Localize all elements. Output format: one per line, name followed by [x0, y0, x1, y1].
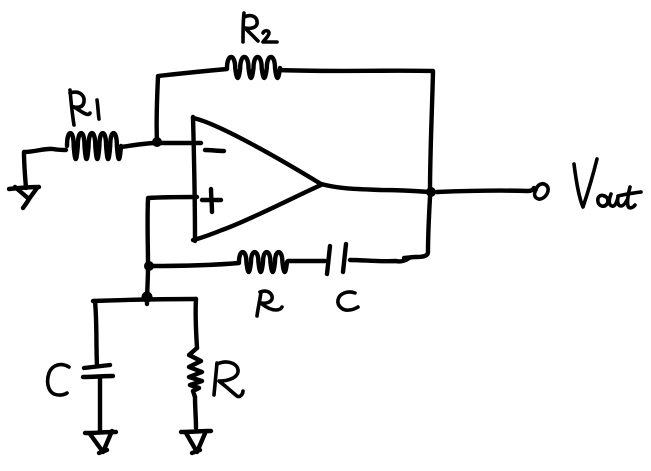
wire (non-inverting node vertical)	[147, 199, 148, 304]
label C (series)	[338, 292, 358, 310]
resistor R2	[227, 57, 280, 78]
wire (series R to feedback node)	[150, 263, 239, 266]
label C (shunt)	[48, 365, 69, 396]
wire (down to shunt C)	[95, 301, 97, 366]
wire (non-inverting input)	[148, 197, 197, 198]
wire (series C to series R)	[288, 259, 325, 263]
node bottom junction	[142, 292, 153, 303]
label R (shunt)	[214, 362, 243, 397]
node feedback junction	[144, 261, 154, 271]
resistor R1	[67, 133, 121, 159]
wire (ground to R1)	[24, 149, 66, 152]
label Vout	[574, 159, 641, 208]
wire (junction up to R2)	[157, 77, 158, 141]
wire (bottom node horizontal)	[93, 299, 196, 301]
label R (series)	[257, 291, 282, 316]
wire (shunt C to ground)	[98, 378, 102, 431]
label R1	[70, 90, 99, 125]
node output junction	[426, 187, 436, 197]
wire (output node to terminal)	[437, 188, 534, 192]
wire (down to shunt R)	[196, 299, 197, 348]
wire (shunt R to ground)	[195, 397, 196, 428]
wire (R2 to output node, top right)	[280, 70, 433, 71]
ground (below shunt R)	[181, 431, 211, 453]
wire (hook to series capacitor)	[350, 252, 428, 261]
wire (top left to R2)	[158, 69, 227, 76]
capacitor C (series)	[327, 244, 346, 274]
ground (below shunt C)	[85, 431, 116, 453]
wire (right vertical down to output node)	[430, 72, 433, 190]
resistor R (series)	[239, 252, 287, 272]
capacitor C (shunt)	[83, 365, 113, 377]
node inverting-input junction	[152, 137, 162, 147]
label R2	[243, 13, 277, 42]
resistor R (shunt)	[189, 348, 202, 397]
op-amp U1	[193, 117, 321, 241]
wire (op-amp output)	[321, 184, 429, 192]
wire (output node down)	[428, 197, 430, 251]
terminal Vout	[535, 184, 549, 199]
wire (R1 to inverting input)	[121, 143, 201, 147]
ground (left, R1 input)	[9, 153, 39, 208]
